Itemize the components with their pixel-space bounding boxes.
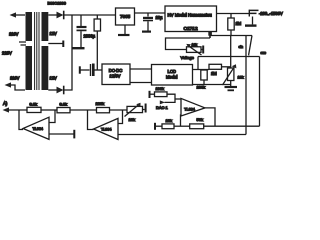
svg-text:A): A) bbox=[3, 101, 8, 106]
wire bbox=[65, 14, 116, 16]
wire bbox=[70, 109, 97, 111]
wire DC-DC to LCD bottom bbox=[130, 82, 152, 84]
secondary centre tap wire bbox=[48, 43, 62, 45]
svg-text:10k: 10k bbox=[166, 118, 172, 123]
svg-text:220k: 220k bbox=[96, 101, 105, 106]
svg-text:110V: 110V bbox=[9, 32, 19, 37]
wire monitor line bbox=[198, 56, 260, 58]
svg-text:HV Modul Hamamatsu: HV Modul Hamamatsu bbox=[168, 12, 213, 17]
svg-text:220V: 220V bbox=[2, 51, 12, 56]
svg-text:DAC 1: DAC 1 bbox=[156, 105, 169, 110]
svg-text:DC-DC: DC-DC bbox=[109, 68, 123, 73]
module U4 LCD Modul bbox=[152, 65, 193, 86]
svg-text:12V: 12V bbox=[50, 76, 58, 81]
wire bbox=[41, 109, 57, 111]
HV box bottom pin node bbox=[209, 32, 211, 39]
svg-text:10µ: 10µ bbox=[156, 15, 164, 20]
resistor 1M (vertical) bbox=[230, 14, 232, 19]
wire bbox=[9, 109, 28, 111]
wire Vprog left branch bbox=[166, 38, 211, 50]
wire 7805 output bbox=[135, 12, 166, 14]
svg-text:100k: 100k bbox=[156, 86, 164, 91]
mains input terminal bottom (arrow) bbox=[5, 82, 12, 87]
svg-text:10k: 10k bbox=[192, 43, 198, 47]
op-amp U5 TL084 (left) bbox=[19, 110, 23, 130]
primary tap 220V stub bbox=[19, 42, 26, 45]
ground bbox=[72, 47, 85, 49]
switch lever bbox=[249, 36, 252, 56]
diode D2 bbox=[48, 89, 56, 91]
wire op-amp U7 - input bbox=[180, 115, 183, 126]
svg-text:Modul: Modul bbox=[166, 74, 177, 79]
ground 7805 bbox=[124, 25, 126, 34]
wire bbox=[165, 94, 176, 102]
resistor 100k (vertical) bbox=[203, 69, 205, 72]
centre tap terminal bar bbox=[62, 41, 64, 48]
capacitor C2 10u bbox=[147, 13, 149, 17]
wire non-inverting input op-amp U6 bbox=[118, 134, 246, 136]
capacitor C3 (input filter) bbox=[90, 64, 92, 76]
svg-text:-200..-1500V: -200..-1500V bbox=[259, 11, 283, 16]
svg-text:7805: 7805 bbox=[120, 14, 131, 19]
svg-text:TL084: TL084 bbox=[101, 128, 111, 132]
ground bbox=[142, 31, 151, 33]
resistor 220k R3 bbox=[97, 108, 110, 113]
svg-text:aus: aus bbox=[261, 51, 267, 55]
svg-text:1M: 1M bbox=[211, 71, 217, 76]
resistor 100k (DAC divider) bbox=[155, 92, 168, 97]
transformer core bbox=[35, 12, 39, 90]
svg-text:LCD: LCD bbox=[168, 69, 176, 74]
module U1 HV Modul Hamamatsu C2712 bbox=[165, 6, 217, 32]
svg-text:12V: 12V bbox=[50, 31, 58, 36]
ground tick 100k bbox=[149, 91, 151, 98]
resistor 10k bbox=[162, 124, 174, 129]
wire bbox=[110, 109, 128, 111]
svg-text:12/9V: 12/9V bbox=[110, 74, 121, 79]
module U3 DC-DC bbox=[102, 64, 130, 85]
wire DC input to DC-DC bbox=[81, 69, 90, 71]
svg-text:56k: 56k bbox=[197, 117, 203, 122]
ground bbox=[245, 24, 257, 26]
mains input terminal top (arrow) bbox=[10, 12, 17, 17]
resistor 1M (horizontal) bbox=[209, 64, 222, 69]
svg-text:3.3k: 3.3k bbox=[60, 102, 68, 107]
wire LCD right bbox=[193, 69, 210, 71]
wire bbox=[11, 85, 26, 90]
ground tick 10k bbox=[154, 123, 156, 130]
transformer TR1 primary winding bbox=[26, 12, 33, 90]
svg-text:2000µ: 2000µ bbox=[84, 34, 96, 39]
wire 0V rail right of LCD bbox=[193, 84, 231, 86]
wire non-inverting input to ground tick bbox=[49, 133, 74, 135]
wire feedback rail to right vertical bbox=[204, 125, 260, 127]
wire HV output bbox=[217, 13, 246, 15]
wire op-amp U7 + input bbox=[175, 98, 181, 100]
capacitor C1 2000u bbox=[80, 15, 82, 26]
svg-text:C2712: C2712 bbox=[184, 26, 198, 32]
ground tick bbox=[201, 49, 203, 51]
wire Vprog right branch bbox=[210, 35, 252, 37]
potentiometer Bias (horizontal) bbox=[187, 47, 202, 53]
resistor R feed (vertical) bbox=[96, 15, 98, 19]
svg-text:110V: 110V bbox=[10, 76, 20, 81]
svg-text:B80C2000: B80C2000 bbox=[48, 1, 67, 6]
svg-text:ein: ein bbox=[239, 45, 244, 49]
svg-text:Voltage: Voltage bbox=[181, 55, 195, 60]
resistor 3.3k R1 bbox=[27, 107, 41, 112]
op-amp U7 TL084 (right, pointing right) bbox=[181, 98, 205, 116]
tick terminal bbox=[79, 66, 81, 73]
svg-text:10k: 10k bbox=[129, 117, 135, 122]
svg-text:TL084: TL084 bbox=[33, 127, 43, 131]
wire op-amp U7 output bbox=[205, 108, 215, 126]
trimmer 10k (bottom) bbox=[127, 106, 143, 112]
wire down to LCD bbox=[197, 57, 199, 70]
svg-text:10k: 10k bbox=[238, 76, 244, 80]
wire inverting input bbox=[49, 110, 55, 123]
diode D1 bbox=[48, 14, 56, 16]
svg-text:TL084: TL084 bbox=[184, 107, 194, 111]
svg-text:1M: 1M bbox=[236, 21, 242, 26]
wire DC-DC to LCD top bbox=[130, 68, 152, 70]
wire bbox=[174, 125, 190, 127]
wire inverting input op-amp U6 bbox=[118, 110, 123, 124]
trimmer 10k (vertical) bbox=[230, 36, 232, 69]
regulator U2 7805 bbox=[116, 8, 135, 25]
transformer TR1 secondary winding bbox=[42, 12, 49, 90]
svg-text:3.3k: 3.3k bbox=[30, 102, 38, 107]
ground bbox=[225, 86, 238, 88]
resistor 56k bbox=[190, 124, 204, 129]
wire rectifier return bbox=[65, 15, 73, 90]
op-amp U6 TL084 (middle) bbox=[88, 110, 94, 130]
resistor 3.3k R2 bbox=[57, 108, 70, 113]
wire ext control (right vertical) bbox=[259, 57, 261, 127]
terminal DAC 1 (arrow) bbox=[160, 100, 165, 104]
wire DAC line (inner vertical) bbox=[245, 36, 247, 135]
wire bbox=[15, 14, 25, 16]
HV output connector bbox=[250, 10, 259, 13]
